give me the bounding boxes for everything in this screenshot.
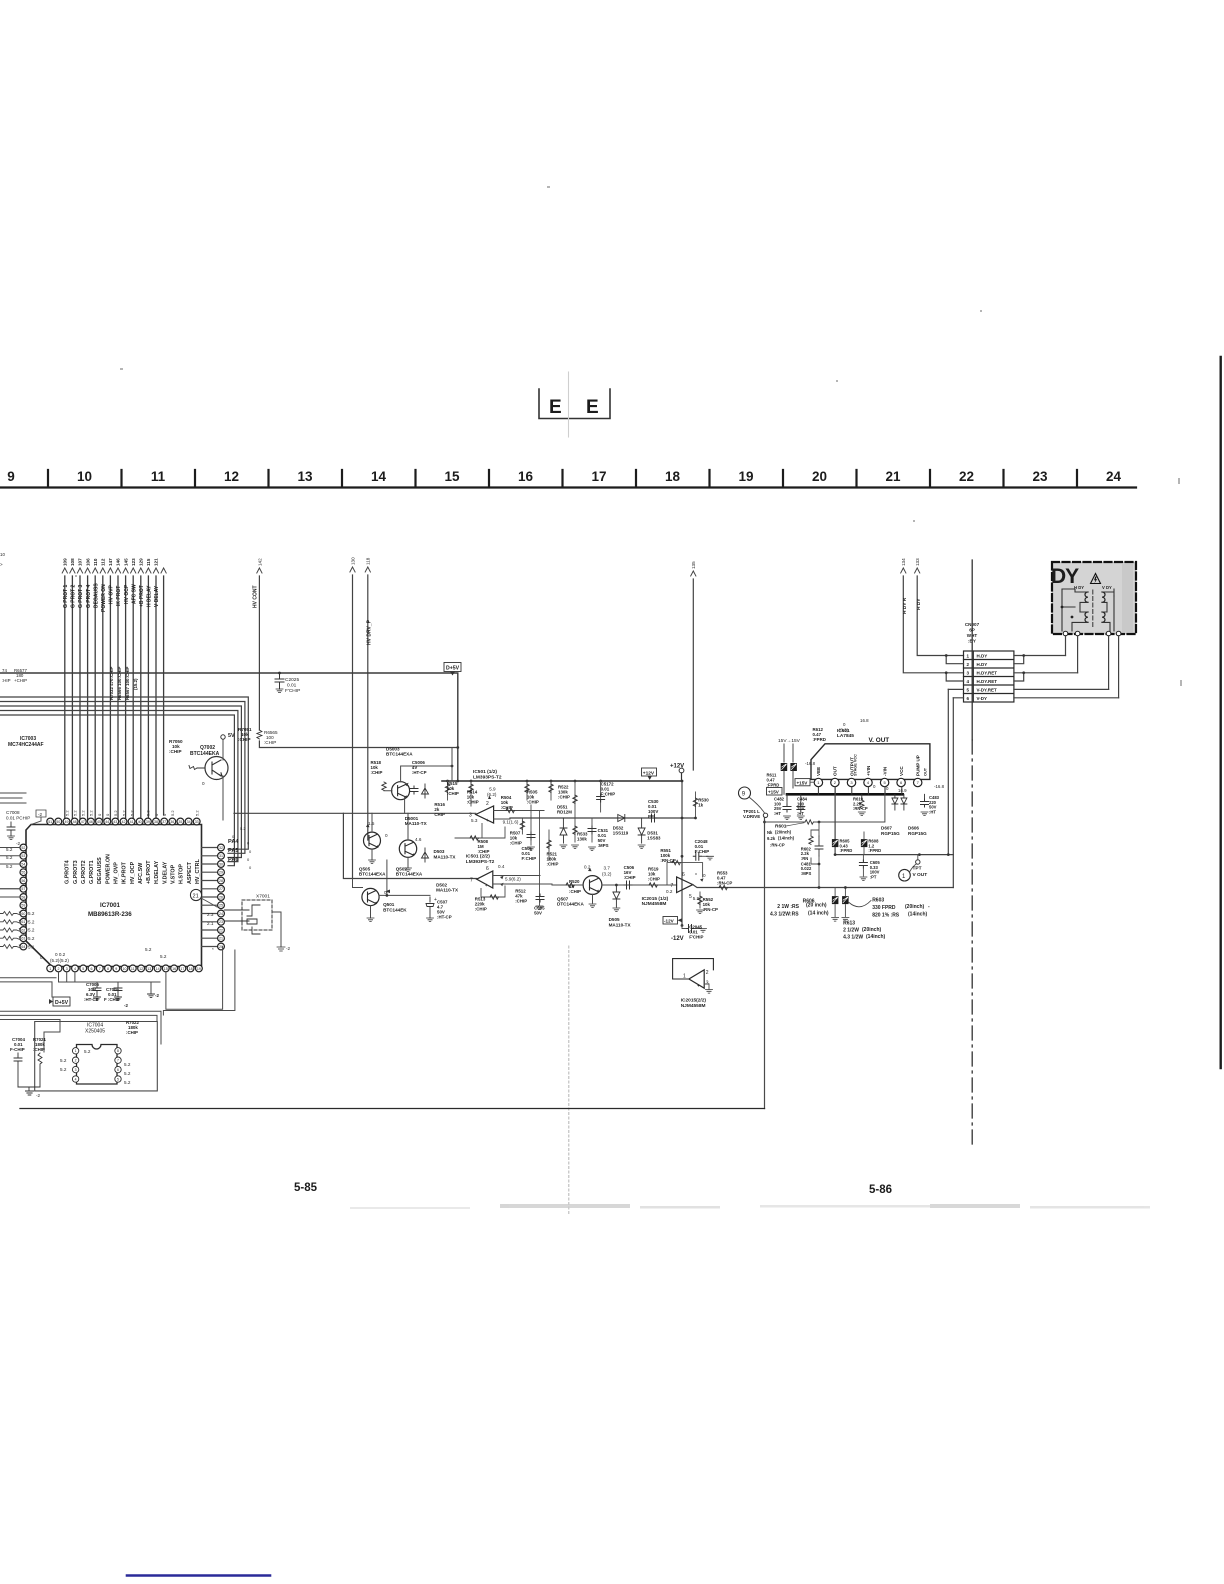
svg-text:50: 50	[56, 820, 60, 824]
nested bus wires to right-side pins	[0, 697, 248, 866]
svg-text:58: 58	[21, 895, 25, 899]
-12V supply box	[663, 917, 678, 925]
svg-text:129: 129	[139, 558, 144, 566]
svg-text::CHIP: :CHIP	[238, 737, 251, 742]
svg-text:0: 0	[247, 857, 250, 862]
svg-text:22: 22	[219, 928, 223, 932]
svg-text:38: 38	[154, 820, 158, 824]
D607 D606 diodes	[892, 794, 907, 810]
V yoke coils	[1102, 592, 1105, 622]
resistor R7051 label	[238, 727, 252, 742]
svg-text:6: 6	[117, 1068, 119, 1072]
svg-text:D+5V: D+5V	[55, 1000, 69, 1006]
svg-text:2.3: 2.3	[207, 912, 214, 917]
svg-text:(20inch): (20inch)	[905, 904, 925, 910]
svg-text:15: 15	[444, 469, 460, 484]
svg-text:29: 29	[219, 871, 223, 875]
svg-text:MB89613R-236: MB89613R-236	[88, 911, 132, 918]
svg-text:Nk: Nk	[767, 830, 773, 835]
C484	[800, 794, 802, 805]
wire AFC SW	[132, 576, 134, 820]
svg-text:H.DELAY: H.DELAY	[154, 860, 160, 884]
CN007 connector label	[965, 622, 980, 644]
svg-text:142: 142	[257, 558, 262, 566]
svg-text::FPRD: :FPRD	[868, 848, 881, 853]
svg-text:5.2: 5.2	[60, 1067, 67, 1072]
svg-text:G.PROT4: G.PROT4	[65, 860, 71, 884]
IC7001 left pin column (52-64)	[20, 844, 27, 950]
svg-text::HT-CP: :HT-CP	[412, 770, 427, 775]
svg-text:19: 19	[738, 469, 753, 484]
svg-text:23: 23	[219, 920, 223, 924]
scan noise band	[350, 1204, 1150, 1209]
svg-text:AFC SW: AFC SW	[131, 584, 137, 604]
svg-text:5.2: 5.2	[28, 911, 35, 916]
svg-text:25: 25	[219, 904, 223, 908]
top signal name labels (rotated)	[63, 583, 160, 612]
svg-text:DEGAUSS: DEGAUSS	[93, 583, 99, 608]
wire G PROT 3	[79, 576, 81, 820]
transistor Q501	[362, 888, 379, 905]
svg-text:0: 0	[249, 865, 252, 870]
svg-text:R6566 100:CHIP: R6566 100:CHIP	[117, 666, 122, 700]
svg-text:STAGE VCC: STAGE VCC	[854, 754, 858, 776]
svg-text:37: 37	[162, 820, 166, 824]
R611 label	[767, 773, 780, 788]
svg-text:-2: -2	[124, 1003, 128, 1008]
svg-text:F :CHIP: F :CHIP	[104, 997, 120, 1002]
wire G PROT 4	[87, 576, 89, 820]
svg-text:4.6: 4.6	[415, 837, 422, 842]
svg-text:5.2: 5.2	[84, 1049, 91, 1054]
svg-text:26: 26	[219, 895, 223, 899]
svg-text:36: 36	[170, 820, 174, 824]
svg-text:2: 2	[967, 662, 970, 667]
svg-text:0: 0	[40, 955, 43, 960]
svg-text:V.STOP: V.STOP	[171, 864, 177, 884]
svg-text:13: 13	[297, 469, 313, 484]
left pin wires and values	[0, 848, 20, 898]
grid ruler bar	[0, 470, 1136, 488]
svg-text:110: 110	[93, 558, 98, 566]
svg-text:3: 3	[967, 670, 970, 675]
svg-text:H.DY.RET: H.DY.RET	[977, 679, 998, 684]
svg-text::CHIP: :CHIP	[510, 841, 522, 846]
capacitor C5006	[410, 786, 418, 794]
svg-text:4: 4	[967, 679, 970, 684]
R619	[861, 794, 863, 800]
svg-text:HV_OCP: HV_OCP	[130, 861, 136, 884]
svg-text:11: 11	[131, 967, 135, 971]
svg-text:F:CHIP: F:CHIP	[601, 792, 616, 797]
svg-text:DEGAUSS: DEGAUSS	[97, 857, 103, 884]
svg-text:0: 0	[873, 784, 876, 789]
svg-text:15V→15V: 15V→15V	[778, 738, 801, 744]
svg-text:9.2k: 9.2k	[767, 836, 776, 841]
IC7003 label	[8, 736, 44, 748]
svg-text:HV CONT: HV CONT	[253, 586, 259, 609]
transistor Q507	[583, 876, 602, 895]
svg-text::CHIP: :CHIP	[527, 799, 539, 804]
svg-text:31: 31	[219, 854, 223, 858]
svg-text:41: 41	[130, 820, 134, 824]
svg-text:4: 4	[74, 967, 76, 971]
svg-text:7: 7	[117, 1059, 119, 1063]
C5172	[600, 781, 602, 812]
svg-text:MA110-TX: MA110-TX	[405, 821, 428, 826]
svg-text:8: 8	[117, 1049, 119, 1053]
wire nest 3	[0, 706, 241, 858]
svg-text:R603: R603	[872, 898, 884, 904]
bus wire to op-amp B	[345, 878, 477, 880]
svg-text:2: 2	[75, 1059, 77, 1063]
svg-text:V DY: V DY	[1102, 585, 1112, 590]
R507 label	[510, 831, 522, 846]
svg-text:1SS83: 1SS83	[647, 836, 661, 841]
yoke terminals	[1063, 631, 1121, 636]
svg-text:5.2: 5.2	[124, 1062, 131, 1067]
resistor R518	[382, 782, 386, 790]
R608 fusible	[861, 839, 868, 847]
svg-text:0.4: 0.4	[498, 864, 505, 869]
svg-text:4: 4	[75, 1077, 77, 1081]
svg-text:-2: -2	[16, 841, 21, 846]
svg-text:52: 52	[21, 846, 25, 850]
svg-text:+15V: +15V	[768, 789, 780, 794]
+12V terminal circle	[679, 768, 684, 773]
svg-text::MPS: :MPS	[598, 843, 609, 848]
wire G PROT 1	[64, 576, 66, 820]
wire HV DRV P (118)	[365, 557, 372, 840]
svg-text:(20 inch): (20 inch)	[806, 903, 827, 909]
svg-text:0: 0	[202, 781, 205, 786]
svg-text:5-86: 5-86	[869, 1184, 892, 1196]
svg-text:5.2: 5.2	[64, 810, 69, 816]
R601 input network	[765, 787, 885, 822]
svg-text:9: 9	[115, 967, 117, 971]
svg-text::CHIP: :CHIP	[169, 749, 182, 754]
svg-text:12: 12	[224, 469, 239, 484]
svg-text:1k: 1k	[698, 803, 703, 808]
svg-text::CHIP: :CHIP	[501, 805, 513, 810]
R515 label	[447, 781, 459, 796]
svg-text:5: 5	[689, 894, 692, 900]
svg-text:7: 7	[470, 878, 473, 884]
svg-text:46: 46	[89, 820, 93, 824]
svg-text:3.7: 3.7	[604, 866, 611, 871]
resistor legs from +12V bus	[447, 781, 449, 800]
R522 leg	[574, 781, 576, 818]
svg-text:C7008: C7008	[6, 810, 20, 815]
svg-text:5.2: 5.2	[28, 936, 35, 941]
svg-text:5.2: 5.2	[6, 864, 13, 869]
svg-text:10: 10	[0, 552, 5, 557]
ruler baseline	[0, 486, 1136, 488]
callout balloon 21	[190, 889, 217, 907]
svg-text:42: 42	[122, 820, 126, 824]
IC7001 top pin name labels	[65, 854, 201, 884]
IC7001 right pin 0 value arrows	[232, 826, 252, 870]
bus wire to op-amp A	[234, 812, 476, 814]
svg-text:33: 33	[195, 820, 199, 824]
C2048	[693, 852, 701, 860]
wire V DELAY	[155, 576, 157, 820]
svg-text:54: 54	[21, 862, 25, 866]
svg-text:5.1: 5.1	[28, 945, 35, 950]
svg-text:-12V: -12V	[664, 919, 675, 924]
svg-text:5.2: 5.2	[170, 810, 175, 816]
left edge cut labels	[0, 552, 27, 683]
svg-text:V DELAY: V DELAY	[154, 585, 160, 607]
svg-text:7: 7	[99, 967, 101, 971]
svg-text:G PROT 1: G PROT 1	[63, 584, 69, 608]
svg-text:OUT: OUT	[923, 767, 927, 776]
svg-text:16: 16	[518, 469, 534, 484]
svg-text:H.STOP: H.STOP	[179, 864, 185, 884]
blue pen mark bottom left	[127, 1574, 270, 1577]
svg-text::CHIP: :CHIP	[447, 791, 459, 796]
top connector signal wires group	[65, 576, 164, 820]
svg-text:3: 3	[75, 1068, 77, 1072]
svg-text:11: 11	[151, 469, 166, 484]
svg-text:60: 60	[21, 912, 25, 916]
bottom pin value labels	[40, 947, 167, 963]
svg-text:IC2015(2/2): IC2015(2/2)	[681, 997, 707, 1003]
svg-text:AFC.SW: AFC.SW	[138, 862, 144, 884]
svg-text:LM393PS-T2: LM393PS-T2	[466, 859, 495, 865]
svg-text:RD12M: RD12M	[557, 809, 572, 814]
svg-text:(3.2): (3.2)	[602, 872, 612, 877]
wire node 135	[691, 561, 697, 770]
IC601 pins 1-7	[814, 778, 922, 786]
warning triangle	[1091, 574, 1101, 584]
R603 callout	[849, 901, 871, 907]
svg-text:5.9(6.2): 5.9(6.2)	[505, 877, 521, 882]
OUT pin 2 wire down	[834, 787, 836, 855]
svg-text:5V: 5V	[228, 733, 235, 739]
svg-text:35: 35	[178, 820, 182, 824]
wire nest 1	[0, 697, 248, 849]
svg-text:5: 5	[82, 967, 84, 971]
svg-text:56: 56	[21, 879, 25, 883]
svg-text:F-CHIP: F-CHIP	[10, 1047, 25, 1052]
svg-text:(14inch): (14inch)	[908, 912, 928, 918]
svg-text:(14inch): (14inch)	[866, 934, 886, 940]
svg-text::CHIP: :CHIP	[478, 849, 490, 854]
svg-text:130k: 130k	[577, 837, 587, 842]
svg-text::HT: :HT	[774, 811, 781, 816]
svg-text:5.2: 5.2	[121, 810, 126, 816]
transistor Q502	[399, 840, 416, 857]
svg-text:(14 inch): (14 inch)	[808, 911, 829, 917]
svg-text:+B PROT: +B PROT	[139, 585, 145, 607]
svg-text:9.1(1.6): 9.1(1.6)	[503, 820, 519, 825]
svg-text:16: 16	[172, 967, 176, 971]
svg-text:POWER ON: POWER ON	[101, 584, 107, 612]
svg-text:-2: -2	[36, 1093, 41, 1098]
svg-text:32: 32	[219, 846, 223, 850]
svg-text:HV_CTRL: HV_CTRL	[195, 858, 201, 884]
C605	[862, 855, 864, 861]
svg-text:DTC144EKA: DTC144EKA	[557, 902, 584, 907]
svg-text:R7032 470:CHIP: R7032 470:CHIP	[109, 666, 114, 700]
svg-text:BTC144EXA: BTC144EXA	[359, 872, 386, 877]
transistor D5003	[392, 782, 410, 800]
svg-text:14: 14	[371, 469, 387, 484]
wire nest 4	[0, 711, 238, 862]
svg-text:IC501 (2/2): IC501 (2/2)	[466, 854, 490, 860]
diode D5004	[422, 784, 429, 798]
svg-text:5.2: 5.2	[195, 810, 200, 816]
+15V box 2	[795, 779, 810, 786]
ruler numbers 9-24	[7, 469, 1121, 484]
svg-text:5.2: 5.2	[145, 947, 152, 952]
svg-text::CHIP: :CHIP	[371, 770, 383, 775]
R7022 label	[126, 1020, 139, 1035]
speckles	[75, 186, 1182, 875]
svg-text:LA7845: LA7845	[837, 733, 854, 739]
resistor R7050 label	[169, 739, 183, 754]
svg-text:1: 1	[75, 1049, 77, 1053]
svg-text:V-DY: V-DY	[977, 696, 988, 701]
svg-text:+B.PROT: +B.PROT	[146, 860, 152, 884]
svg-text:13: 13	[147, 967, 151, 971]
svg-text:PA6: PA6	[228, 857, 238, 863]
C531	[591, 818, 593, 842]
svg-text::RN-CP: :RN-CP	[703, 907, 718, 912]
svg-text:(20inch): (20inch)	[775, 829, 792, 834]
svg-text:5: 5	[117, 1077, 119, 1081]
svg-text:4.3 1/2W: 4.3 1/2W	[843, 935, 863, 941]
svg-text:2 1W :RS: 2 1W :RS	[777, 904, 799, 910]
wire IK PROT	[117, 576, 119, 820]
svg-text:5-85: 5-85	[294, 1182, 318, 1194]
svg-text:D+5V: D+5V	[446, 666, 460, 672]
svg-text:16.9: 16.9	[898, 788, 907, 793]
svg-text:40: 40	[138, 820, 142, 824]
svg-text:55: 55	[21, 871, 25, 875]
svg-text::FPRD: :FPRD	[840, 848, 853, 853]
C7004 and R7021 components	[10, 1037, 46, 1052]
R513 feedback	[481, 886, 505, 897]
svg-text:5.9: 5.9	[489, 787, 496, 792]
bus to CN007 pin5	[818, 886, 821, 889]
R505 label	[527, 789, 539, 804]
wire H DELAY	[147, 576, 149, 820]
svg-text:1: 1	[967, 653, 970, 658]
svg-text:+CHIP: +CHIP	[14, 678, 27, 683]
svg-text:HV DRV_P: HV DRV_P	[367, 619, 373, 645]
svg-text:G.PROT3: G.PROT3	[73, 860, 79, 884]
C530 series cap	[649, 814, 657, 822]
svg-text:F:CHIP: F:CHIP	[695, 849, 710, 854]
CN007 connector body	[964, 651, 1014, 702]
svg-text:-2: -2	[286, 946, 291, 951]
ground symbol below IC7004	[26, 1091, 34, 1095]
svg-text:5.2: 5.2	[160, 954, 167, 959]
svg-text::FPRD: :FPRD	[813, 737, 826, 742]
diode D502 label	[436, 882, 459, 892]
svg-text::HT: :HT	[929, 809, 936, 814]
svg-text:IC7001: IC7001	[100, 902, 121, 909]
wire HV CONT (142)	[253, 558, 458, 748]
svg-text:44: 44	[105, 820, 109, 824]
svg-text:0: 0	[105, 813, 110, 816]
svg-text:118: 118	[366, 557, 371, 565]
R530	[695, 792, 697, 818]
svg-text:HV_OVP: HV_OVP	[114, 862, 120, 884]
svg-text:IK PROT: IK PROT	[116, 586, 122, 606]
svg-text:0: 0	[703, 873, 706, 878]
diode D503	[422, 848, 429, 862]
svg-text:-12V: -12V	[671, 936, 684, 942]
svg-text:112: 112	[101, 558, 106, 566]
svg-text:10: 10	[77, 469, 92, 484]
IC7001 bottom pin row (1-19)	[47, 965, 203, 972]
svg-text:24: 24	[219, 912, 223, 916]
svg-text:5.2: 5.2	[6, 855, 13, 860]
svg-text::RN-CP: :RN-CP	[853, 806, 868, 811]
thick supply rail under IC601	[787, 793, 903, 796]
R602 C481 parallel	[811, 822, 819, 888]
svg-text:MA110-TX: MA110-TX	[436, 888, 459, 893]
svg-text:45: 45	[97, 820, 101, 824]
top signal connector numbers (rotated)	[63, 558, 159, 566]
svg-text:E: E	[549, 397, 562, 418]
svg-text:17: 17	[180, 967, 184, 971]
svg-text:0.01: 0.01	[287, 683, 297, 689]
svg-text::CHIP: :CHIP	[648, 877, 660, 882]
svg-text:3: 3	[706, 981, 709, 987]
svg-text:F:CHIP: F:CHIP	[522, 856, 537, 861]
vertical center dash-dot line	[971, 560, 973, 740]
D531	[638, 818, 645, 843]
svg-text:121: 121	[154, 558, 159, 566]
IC7004 pins	[72, 1048, 121, 1083]
svg-text:BTC144EXA: BTC144EXA	[396, 872, 423, 877]
svg-text::HT: :HT	[797, 811, 804, 816]
svg-text:BTC144EK: BTC144EK	[383, 907, 407, 912]
IC7004 pin value labels	[60, 1049, 131, 1085]
svg-text:(15.2): (15.2)	[133, 678, 138, 690]
svg-text::CHIP: :CHIP	[126, 1030, 138, 1035]
op-amp IC501 1/2	[476, 806, 494, 823]
IC7004 logic IC body	[77, 1023, 118, 1085]
svg-text:0: 0	[886, 786, 889, 791]
svg-text:16.8: 16.8	[860, 718, 869, 723]
svg-text:57: 57	[21, 887, 25, 891]
svg-text:-: -	[928, 904, 930, 910]
R514 label	[467, 789, 479, 804]
yoke wires down to CN007	[1066, 636, 1119, 698]
op-amp IC501 2/2	[477, 871, 493, 888]
H yoke coils	[1085, 592, 1088, 622]
svg-text:BTC144EKA: BTC144EKA	[190, 751, 220, 757]
svg-text:0: 0	[249, 849, 252, 854]
C506 series	[624, 881, 632, 889]
svg-text:(20inch): (20inch)	[862, 927, 882, 933]
IC7001 microcontroller body	[26, 825, 202, 967]
svg-text:14: 14	[156, 967, 160, 971]
svg-text:820 1% :RS: 820 1% :RS	[872, 913, 900, 919]
D+5V supply box lower	[49, 997, 70, 1006]
svg-text:24: 24	[1106, 469, 1122, 484]
V OUT line	[835, 854, 953, 856]
Q7002 name label	[190, 745, 220, 757]
svg-text:RGP15G: RGP15G	[881, 831, 900, 836]
TPT V OUT	[899, 869, 911, 881]
R512 label	[515, 888, 527, 903]
